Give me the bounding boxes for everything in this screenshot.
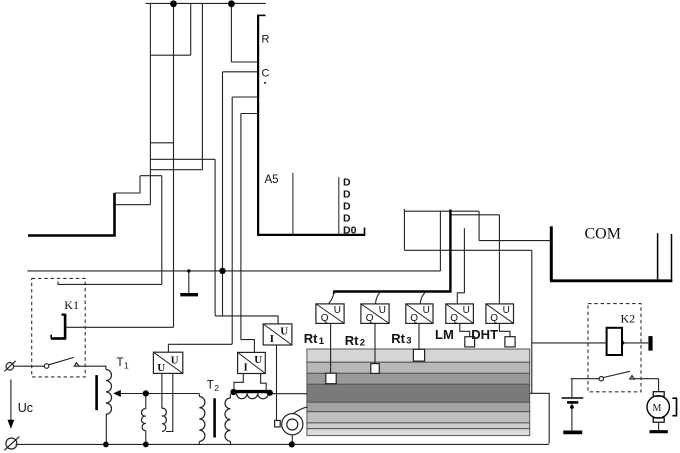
svg-text:T: T — [117, 357, 124, 369]
svg-text:U: U — [423, 305, 430, 316]
svg-text:K1: K1 — [64, 298, 79, 312]
svg-text:M: M — [653, 403, 662, 414]
svg-text:D: D — [343, 201, 351, 213]
svg-text:1: 1 — [319, 336, 325, 347]
svg-text:Q: Q — [321, 313, 329, 324]
svg-text:A5: A5 — [265, 174, 279, 186]
svg-text:D: D — [343, 177, 351, 189]
svg-text:DHT: DHT — [471, 327, 498, 342]
svg-text:2: 2 — [214, 383, 219, 393]
svg-text:Rt: Rt — [345, 333, 359, 348]
svg-text:Rt: Rt — [391, 331, 405, 346]
svg-text:Q: Q — [450, 313, 458, 324]
svg-text:I: I — [270, 333, 274, 345]
svg-text:U: U — [157, 362, 165, 374]
svg-text:LM: LM — [435, 327, 454, 342]
svg-text:U: U — [379, 305, 386, 316]
svg-text:U: U — [463, 305, 470, 316]
svg-text:U: U — [334, 305, 341, 316]
svg-text:1: 1 — [124, 361, 129, 371]
svg-text:Q: Q — [490, 313, 498, 324]
svg-text:Rt: Rt — [304, 331, 318, 346]
svg-text:D0: D0 — [343, 225, 357, 237]
svg-text:3: 3 — [406, 335, 411, 346]
svg-text:COM: COM — [585, 226, 621, 243]
svg-text:Q: Q — [410, 313, 418, 324]
svg-text:R: R — [262, 34, 270, 46]
svg-text:2: 2 — [360, 337, 365, 348]
svg-text:K2: K2 — [621, 312, 636, 326]
svg-text:Q: Q — [366, 313, 374, 324]
svg-text:U: U — [280, 326, 288, 338]
svg-text:U: U — [254, 354, 262, 366]
svg-text:U: U — [18, 401, 27, 415]
svg-text:D: D — [343, 213, 351, 225]
svg-text:T: T — [207, 380, 214, 392]
svg-text:U: U — [171, 355, 179, 367]
svg-text:D: D — [343, 189, 351, 201]
svg-text:C: C — [262, 68, 270, 80]
svg-text:I: I — [244, 362, 248, 374]
svg-text:c: c — [27, 401, 33, 415]
svg-text:U: U — [503, 305, 510, 316]
